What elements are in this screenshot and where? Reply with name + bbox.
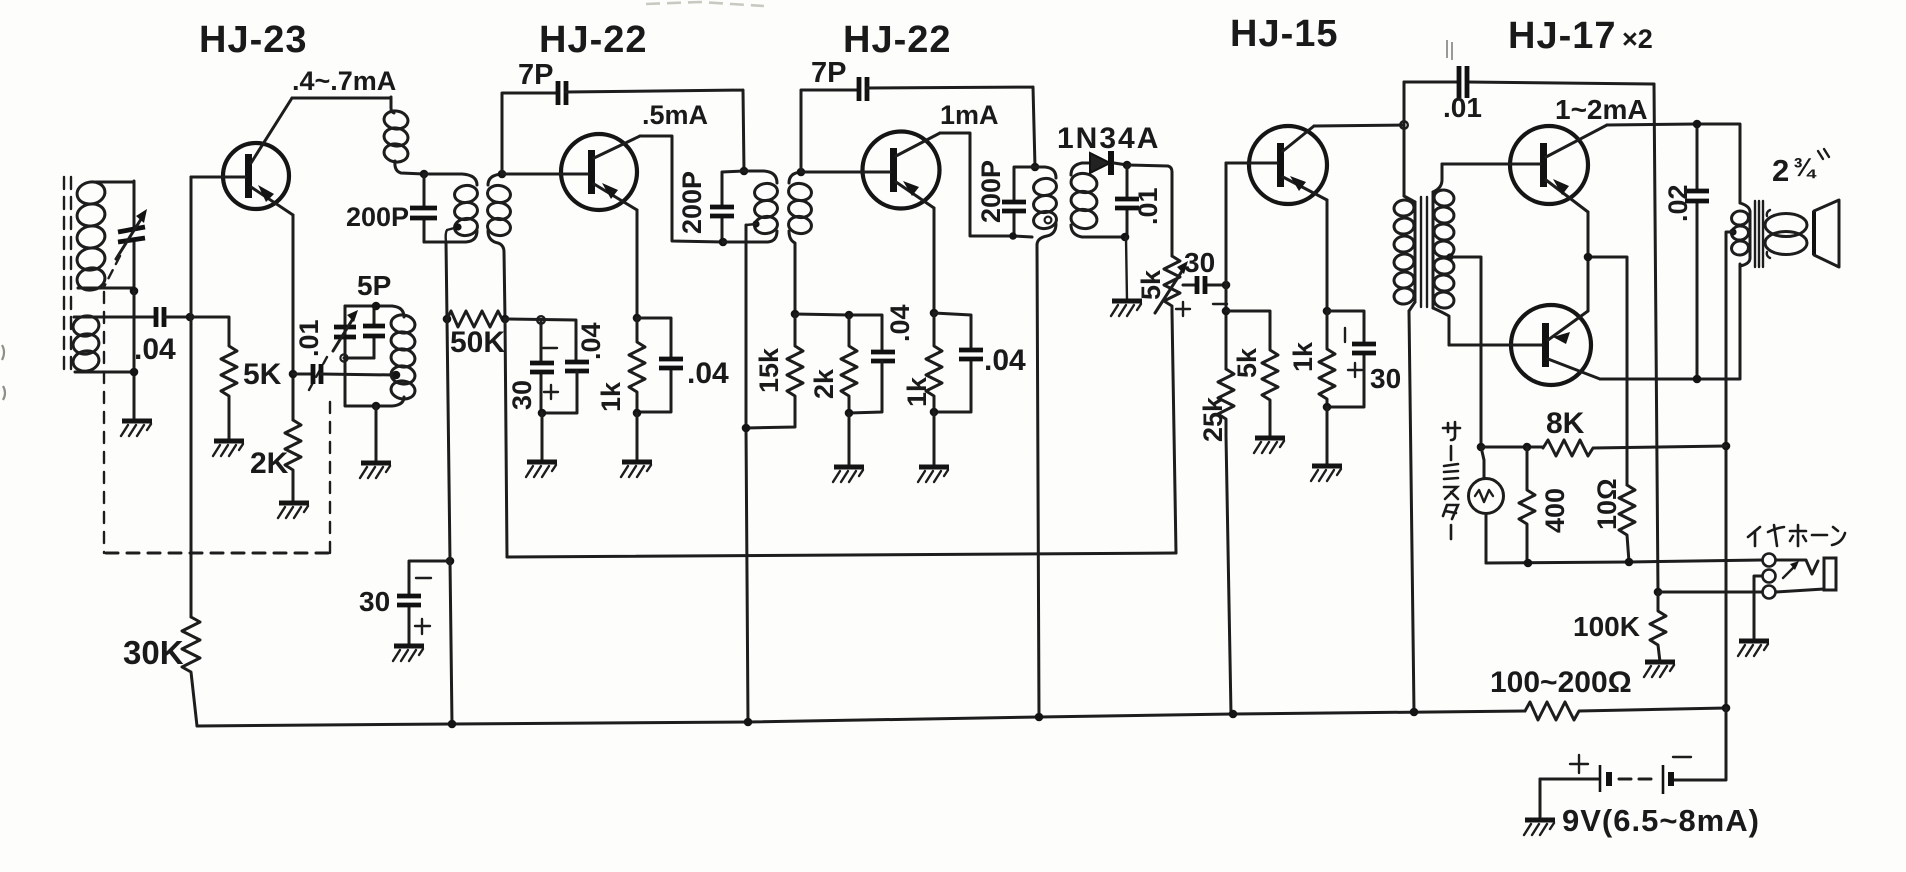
svg-text:1N34A: 1N34A	[1057, 122, 1160, 155]
node emitter Q2	[633, 314, 642, 323]
antenna coupling coil L2	[71, 314, 156, 373]
node emitter bottom Q3	[930, 408, 939, 417]
node osc tank top	[372, 302, 381, 311]
node emitter HJ-15	[1323, 307, 1332, 316]
svg-text:.01: .01	[1443, 92, 1482, 123]
node IFT1 secondary top	[498, 170, 507, 179]
node 400 top	[1523, 443, 1532, 452]
wire T1 primary to bus	[1409, 311, 1414, 712]
wire detector to volume	[1127, 165, 1172, 256]
wire 2k ground	[848, 413, 851, 467]
wire bias rail stage2	[795, 314, 882, 351]
wire bias node stage1	[505, 319, 576, 361]
gang dashed linkage	[104, 256, 330, 553]
wire volume bottom to AVC rail	[1172, 312, 1176, 553]
svg-text:10Ω: 10Ω	[1592, 478, 1622, 530]
node AVC dropper junction	[446, 557, 455, 566]
svg-text:200P: 200P	[346, 202, 409, 232]
resistor R1 5K	[190, 317, 237, 441]
resistor R10 1k HJ-15	[1319, 311, 1335, 407]
svg-text:.04: .04	[885, 304, 915, 342]
ground 100K	[1644, 662, 1675, 677]
jack contact 1	[1763, 554, 1776, 567]
ground osc tank	[360, 463, 391, 478]
node 1k bottom HJ-15	[1323, 403, 1332, 412]
node osc tank bottom	[372, 402, 381, 411]
jack body	[1776, 558, 1836, 592]
node collector HJ-15	[1400, 121, 1408, 129]
wire 7P to IFT2 feed	[566, 90, 744, 171]
driver transformer T1 primary	[1393, 196, 1415, 311]
transistor Q5 output upper	[1442, 125, 1607, 212]
node 2k bottom	[845, 409, 854, 418]
wire contact3	[1658, 591, 1762, 594]
IFT2 secondary winding	[787, 172, 812, 314]
wire L2 bottom to ground	[133, 291, 136, 421]
capacitor 7P second	[859, 77, 867, 101]
node 200P bottom stage1 collector	[719, 238, 728, 247]
svg-text:7P: 7P	[518, 59, 553, 91]
svg-text:HJ-23: HJ-23	[199, 19, 308, 61]
node 50K right	[501, 315, 510, 324]
wire 1k ground HJ-15	[1326, 407, 1329, 466]
IFT3 primary winding	[1032, 167, 1057, 245]
padder cap osc	[340, 306, 385, 362]
node detector bottom	[1121, 233, 1130, 242]
ground jack	[1738, 641, 1769, 656]
oscillator tank outline	[345, 306, 392, 406]
capacitor C3 200P	[410, 174, 437, 242]
svg-text:.04: .04	[687, 357, 729, 390]
jack contact 3	[1763, 586, 1776, 599]
node IFT3 primary top	[1031, 163, 1040, 172]
capacitor C2 .01	[293, 364, 396, 384]
svg-text:100K: 100K	[1573, 611, 1640, 642]
resistor R13 400	[1519, 447, 1535, 563]
svg-text:.5mA: .5mA	[642, 100, 708, 130]
node bus tap line	[744, 718, 753, 727]
svg-text:2K: 2K	[250, 447, 289, 480]
node 200P3 bottom	[1009, 232, 1017, 240]
capacitor C14 .02	[1685, 124, 1709, 379]
node bus IFT3	[1035, 713, 1044, 722]
svg-text:×2: ×2	[1622, 24, 1653, 54]
svg-text:15k: 15k	[754, 347, 784, 393]
diode D1 1N34A	[1082, 151, 1127, 175]
wire collector Q6	[1600, 264, 1740, 379]
battery B1 9V	[1540, 708, 1726, 794]
wire collector to driver primary	[1403, 82, 1406, 196]
T1 secondary winding	[1433, 164, 1455, 345]
IFT3 secondary winding	[1070, 163, 1124, 237]
speaker transformer T2 primary	[1729, 203, 1750, 266]
wire collector Q2	[640, 136, 723, 242]
antenna coil L1 (tuned winding)	[75, 180, 134, 293]
transistor Q1 HJ-23	[191, 98, 293, 215]
capacitor C15 .01 earphone feed	[1404, 66, 1654, 98]
bottom bus	[197, 711, 1525, 726]
wire base line HJ-23	[190, 177, 193, 617]
capacitor 7P first	[558, 81, 566, 105]
ground 2K	[278, 503, 309, 518]
svg-text:7P: 7P	[811, 57, 846, 89]
capacitor C7 200P second	[710, 171, 744, 242]
ground emitter Q2	[621, 462, 652, 477]
wire collector HJ-15	[1314, 125, 1404, 126]
wire base feed down to AVC rail	[505, 319, 507, 557]
svg-text:HJ-15: HJ-15	[1230, 13, 1339, 55]
svg-text:.04: .04	[134, 333, 176, 366]
wire emitters common	[1588, 212, 1627, 485]
paper mark left edge	[2, 345, 5, 400]
node antenna junction	[130, 287, 139, 296]
svg-text:.4~.7mA: .4~.7mA	[292, 66, 396, 96]
wire tank bottom to ground	[375, 406, 378, 463]
volume pot VR1 5k	[1155, 256, 1188, 313]
wire detector ground stem	[1126, 237, 1127, 301]
ground bias stage2	[833, 467, 864, 482]
resistor R9 5k bias	[1226, 311, 1278, 438]
jack ground branch	[1754, 576, 1762, 641]
jack switch arrow	[1783, 561, 1799, 578]
wire collector HJ-23 top	[292, 97, 391, 100]
resistor R2 2K	[285, 420, 301, 503]
speaker voice coil	[1765, 210, 1807, 258]
capacitor C11 .01 detector	[1115, 165, 1139, 236]
wire emitter Q3	[933, 208, 936, 313]
svg-text:2k: 2k	[809, 368, 839, 399]
wire base line HJ-15	[1225, 163, 1228, 369]
wire emitter ground Q3	[933, 412, 936, 467]
capacitor C12 30 coupling	[1176, 276, 1227, 316]
node 8K right	[1722, 442, 1731, 451]
resistor R7 1k stage2	[926, 313, 942, 412]
IFT1 secondary winding	[486, 174, 511, 319]
svg-text:¾: ¾	[1793, 152, 1817, 182]
ground 5K	[213, 441, 244, 456]
svg-text:HJ-17: HJ-17	[1508, 15, 1617, 57]
node emitter bottom Q2	[633, 409, 642, 418]
node emitter common	[1584, 253, 1593, 262]
node bus 30cap	[448, 720, 457, 729]
node 400 bottom	[1524, 559, 1533, 568]
node 15k top	[791, 310, 800, 319]
capacitor C10 200P third	[1002, 167, 1035, 236]
tiny print artifact	[1447, 40, 1452, 60]
svg-text:400: 400	[1540, 488, 1570, 533]
svg-text:30: 30	[1370, 363, 1401, 394]
speaker cone	[1814, 200, 1839, 267]
wire emitter HJ-15	[1326, 200, 1329, 311]
oscillator coil L3	[376, 306, 416, 406]
capacitor C8 .04 stage2	[849, 352, 895, 413]
wire 7P branch stage1	[502, 93, 558, 174]
wire IFT3 bottom to bus	[1037, 245, 1039, 717]
wire bias row	[1481, 446, 1543, 449]
svg-text:HJ-22: HJ-22	[539, 19, 648, 61]
svg-text:1mA: 1mA	[940, 100, 999, 130]
svg-text:100~200Ω: 100~200Ω	[1490, 666, 1632, 699]
node detector output	[1123, 161, 1132, 170]
wire IFT2 tap down	[746, 225, 748, 722]
svg-text:9V(6.5~8mA): 9V(6.5~8mA)	[1562, 803, 1760, 838]
T2 core	[1755, 201, 1763, 267]
capacitor C6 .04 emitter	[637, 318, 683, 412]
resistor R5 15k	[746, 314, 803, 428]
svg-text:2: 2	[1772, 153, 1789, 188]
node 100K top	[1654, 588, 1663, 597]
resistor R12 8K	[1543, 440, 1726, 456]
label earphone (katakana)	[1748, 525, 1845, 546]
resistor R16 30K	[182, 617, 200, 726]
ground bias stage1	[526, 462, 557, 477]
resistor R11 10ohm	[1619, 485, 1635, 562]
node thermistor top	[1477, 443, 1486, 452]
capacitor C1 .04	[156, 307, 190, 327]
node bus T1	[1410, 708, 1419, 717]
node base HJ-15 coupling	[1222, 281, 1231, 290]
svg-text:5P: 5P	[357, 270, 391, 301]
wire IFT1 bottom to 50K	[446, 242, 447, 319]
node IFT2 secondary top	[797, 168, 806, 177]
svg-text:25k: 25k	[1198, 396, 1228, 442]
wire collector Q3	[940, 133, 1032, 237]
capacitor C13 30 emitter bypass	[1327, 311, 1376, 407]
node 15k bottom on tap line	[742, 424, 751, 433]
title HJ-17x2	[1508, 15, 1653, 57]
resistor R14 100K	[1650, 592, 1666, 662]
ferrite rod (dashed)	[64, 177, 71, 375]
ground battery	[1524, 779, 1555, 835]
svg-text:1~2mA: 1~2mA	[1555, 94, 1648, 125]
node base .04 junction	[186, 313, 195, 322]
node emitter Q3	[930, 309, 939, 318]
node IFT2 primary top	[740, 167, 749, 176]
wire 50K line down	[447, 319, 452, 724]
svg-text:200P: 200P	[677, 171, 707, 234]
node bus battery	[1722, 704, 1731, 713]
trimmer 5P	[333, 306, 358, 358]
svg-text:1k: 1k	[1288, 341, 1318, 372]
svg-text:8K: 8K	[1546, 407, 1585, 440]
ground C16	[393, 646, 424, 661]
capacitor C16 30 AVC	[397, 561, 450, 646]
capacitor C5 .04	[541, 362, 589, 413]
wire emitter ground Q2	[636, 413, 639, 462]
tuning capacitor VC1	[116, 181, 147, 291]
capacitor C9 .04 emitter stage2	[934, 313, 983, 412]
node IFT1 primary top	[420, 170, 429, 179]
ground emitter HJ-15	[1311, 466, 1342, 481]
transistor Q4 HJ-15	[1226, 126, 1327, 204]
svg-text:1k: 1k	[596, 381, 626, 412]
svg-text:.04: .04	[984, 344, 1026, 377]
svg-text:1k: 1k	[902, 376, 932, 407]
T1 core	[1421, 197, 1427, 307]
wire collector Q5 to speaker	[1607, 124, 1740, 203]
IFT1 primary winding	[424, 174, 479, 242]
bias bottom rail to jack	[1486, 560, 1762, 563]
svg-text:.01: .01	[294, 319, 324, 357]
ground antenna	[121, 421, 152, 436]
node bus 25k	[1229, 710, 1238, 719]
svg-text:.01: .01	[1133, 187, 1163, 225]
capacitor C4 30 electrolytic	[530, 320, 558, 413]
ground 5k bias	[1254, 438, 1285, 453]
transistor Q6 output lower	[1449, 305, 1600, 385]
wire earphone feed down	[1654, 84, 1658, 592]
T1 center tap	[1446, 253, 1481, 447]
svg-text:200P: 200P	[976, 160, 1006, 223]
node 2k top	[845, 311, 854, 320]
svg-text:30K: 30K	[123, 634, 184, 671]
resistor R3 50K	[447, 311, 505, 327]
svg-text:30: 30	[359, 586, 390, 617]
node osc coil tap	[392, 371, 401, 380]
node 50K left	[443, 315, 452, 324]
collector feedback coil L4	[383, 97, 424, 174]
node .02 bottom	[1693, 375, 1702, 384]
svg-text:HJ-22: HJ-22	[843, 19, 952, 61]
ground emitter Q3	[918, 467, 949, 482]
resistor R6 2k	[841, 315, 857, 413]
wire emitter Q1	[292, 215, 295, 420]
node 10ohm bottom	[1625, 558, 1634, 567]
resistor R8 25k	[1218, 369, 1234, 714]
wire to ground bias stage1	[541, 413, 544, 462]
node bias bottom stage1	[538, 409, 547, 418]
svg-text:5K: 5K	[243, 358, 282, 391]
thermistor TH1	[1469, 447, 1504, 563]
node 5k branch	[1222, 307, 1231, 316]
label thermistor (katakana vertical)	[1443, 422, 1460, 539]
label 2 3/4 inch	[1772, 149, 1829, 188]
IFT2 primary winding	[723, 171, 779, 242]
node .02 top	[1693, 120, 1702, 129]
svg-text:.02: .02	[1663, 184, 1693, 222]
svg-text:5k: 5k	[1136, 269, 1166, 300]
node base bias stage1	[537, 316, 545, 324]
svg-text:.04: .04	[576, 322, 606, 360]
paper smudge top	[646, 2, 764, 6]
wire speaker tap down	[1726, 232, 1733, 708]
resistor R4 1k	[629, 318, 645, 413]
resistor R15 100~200ohm	[1525, 702, 1726, 720]
svg-text:30: 30	[1184, 247, 1215, 278]
svg-text:5k: 5k	[1232, 347, 1262, 378]
ground detector	[1111, 301, 1142, 316]
node L2 bottom	[130, 368, 139, 377]
svg-text:50K: 50K	[450, 326, 505, 359]
node emitter .01	[289, 370, 298, 379]
AVC rail	[507, 553, 1176, 557]
transistor Q3 HJ-22 second	[801, 132, 940, 209]
jack contact 2	[1763, 570, 1776, 583]
svg-text:30: 30	[507, 380, 537, 410]
wire emitter Q2	[636, 210, 639, 318]
wire 7P branch stage2	[801, 90, 859, 172]
transistor Q2 HJ-22 first	[502, 134, 640, 210]
wire 7P2 to IFT3 feed	[867, 87, 1035, 167]
